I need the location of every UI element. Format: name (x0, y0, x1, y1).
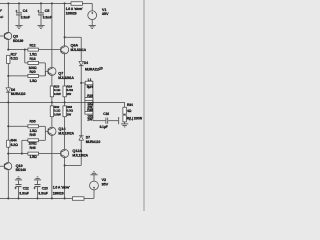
svg-text:4Ω: 4Ω (127, 109, 132, 113)
svg-text:MURA110: MURA110 (85, 68, 100, 72)
svg-text:Q7: Q7 (58, 71, 63, 75)
svg-text:Q3: Q3 (13, 34, 18, 38)
svg-text:C22: C22 (23, 186, 29, 190)
svg-text:3.3mF: 3.3mF (38, 192, 47, 196)
svg-text:Q6A: Q6A (71, 43, 79, 47)
svg-text:R36: R36 (30, 119, 36, 123)
svg-text:Q12A: Q12A (72, 149, 82, 153)
svg-text:3.3mF: 3.3mF (21, 16, 30, 20)
svg-text:R(L) 200W: R(L) 200W (127, 116, 143, 120)
svg-text:R20: R20 (30, 70, 36, 74)
svg-text:R46: R46 (30, 146, 36, 150)
svg-text:R34: R34 (127, 103, 133, 107)
svg-text:189028: 189028 (53, 192, 64, 196)
svg-text:D4: D4 (84, 61, 88, 65)
svg-text:C16: C16 (103, 112, 109, 116)
svg-text:BD139: BD139 (13, 39, 23, 43)
svg-text:6.2Ω: 6.2Ω (11, 57, 18, 61)
svg-text:0.5W: 0.5W (54, 92, 61, 96)
svg-text:2W: 2W (67, 112, 72, 116)
svg-text:MJL3281A: MJL3281A (58, 76, 74, 80)
svg-text:MJL1302A: MJL1302A (58, 131, 74, 135)
svg-text:L1: L1 (88, 78, 92, 82)
svg-text:35V: 35V (102, 12, 109, 16)
svg-text:10: 10 (99, 67, 103, 71)
svg-text:35V: 35V (102, 182, 109, 186)
svg-text:mF: mF (0, 15, 3, 19)
svg-text:mF: mF (0, 8, 2, 12)
svg-text:R29: R29 (87, 94, 93, 98)
svg-text:8.1μF: 8.1μF (100, 125, 108, 129)
svg-text:189028: 189028 (66, 11, 77, 15)
svg-text:R18: R18 (30, 57, 36, 61)
svg-text:R45: R45 (30, 133, 36, 137)
svg-text:V2: V2 (102, 178, 107, 182)
svg-text:C23: C23 (42, 186, 48, 190)
svg-text:MURA110: MURA110 (11, 92, 26, 96)
svg-text:5μH: 5μH (87, 85, 94, 89)
svg-text:R12: R12 (30, 44, 36, 48)
svg-text:3.3mF: 3.3mF (19, 192, 28, 196)
svg-text:1.6 A 'slow': 1.6 A 'slow' (53, 186, 70, 190)
svg-text:BD140: BD140 (16, 168, 26, 172)
svg-text:MJL3281A: MJL3281A (71, 48, 87, 52)
svg-text:MURA110: MURA110 (86, 140, 101, 144)
svg-text:6.2Ω: 6.2Ω (11, 143, 18, 147)
svg-text:2W: 2W (67, 92, 72, 96)
svg-text:1.5Ω: 1.5Ω (30, 155, 37, 159)
svg-text:R44: R44 (11, 139, 17, 143)
svg-text:3.3mF: 3.3mF (43, 16, 52, 20)
svg-text:D7: D7 (86, 135, 90, 139)
svg-text:MJL1302A: MJL1302A (72, 153, 88, 157)
svg-text:R35: R35 (87, 108, 93, 112)
svg-text:0.5W: 0.5W (54, 112, 61, 116)
svg-text:1.5Ω: 1.5Ω (30, 79, 37, 83)
